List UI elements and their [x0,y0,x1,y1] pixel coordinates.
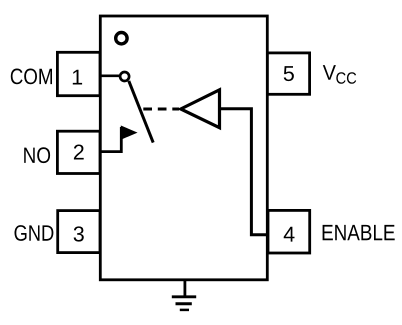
ground bar 1 [172,295,196,298]
label GND [15,225,54,241]
switch pole contact circle [120,72,129,81]
switch blade [129,81,153,143]
inverter/driver triangle [181,90,220,128]
pin 2 number [74,145,84,160]
pin 5 number [284,66,294,81]
label COM [11,69,52,85]
pin 1 box [57,52,100,95]
pin 3 box [58,211,100,253]
ground bar 3 [180,309,189,312]
pin 4 box [268,210,310,253]
pin 3 number [74,226,84,241]
pin 1 number [73,70,82,85]
wire pin2 to NO contact [100,127,121,152]
wire driver to pin 4 [220,109,268,235]
label NO [24,147,50,163]
unused contact circle (top) [116,33,127,44]
dashed actuation line [143,108,179,111]
wire pin1 to switch pole [100,74,119,77]
label ENABLE [323,225,395,240]
pin 2 box [57,131,100,173]
label VCC [323,65,336,80]
IC body U1 [100,16,267,280]
NO contact arrow [121,126,136,139]
ground bar 2 [176,302,192,305]
ground stem [183,280,186,297]
pin 5 box [267,53,309,94]
pin 4 number [284,227,295,242]
